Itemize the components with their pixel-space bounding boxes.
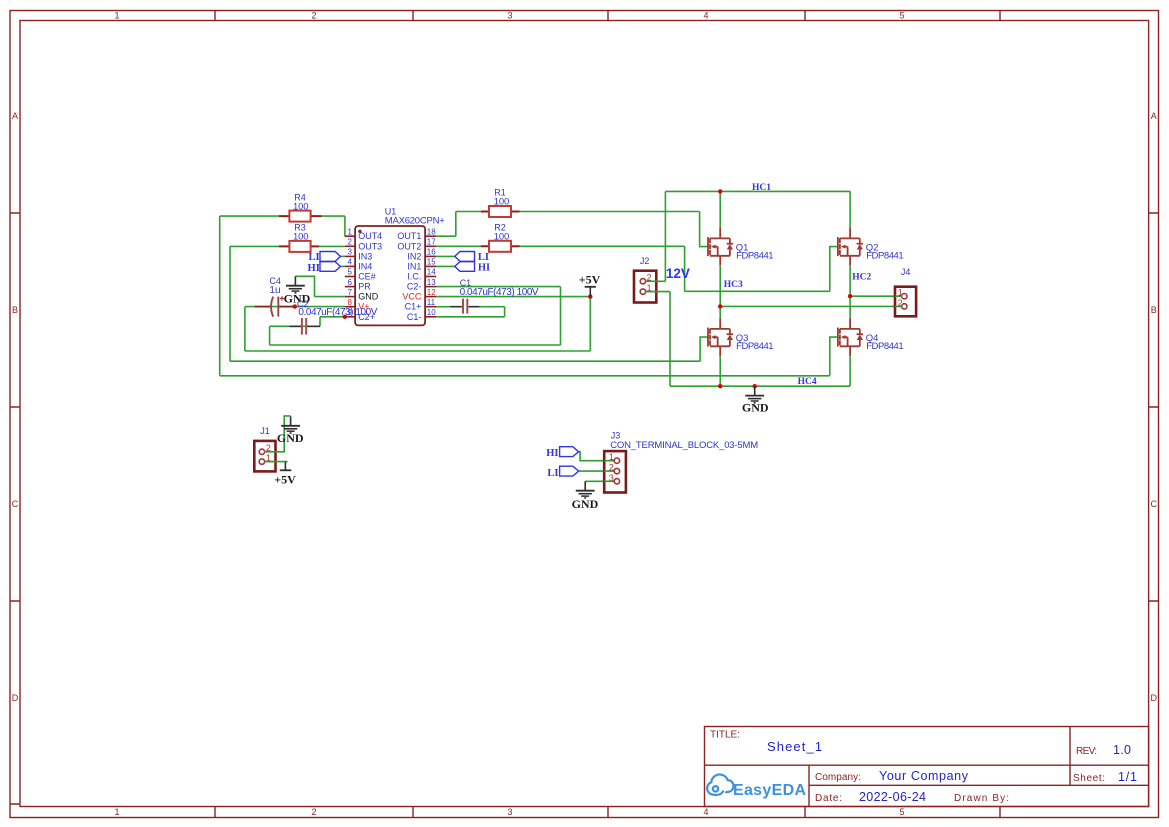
capacitor C2	[290, 318, 321, 335]
svg-text:C2-: C2-	[407, 282, 422, 292]
svg-text:3: 3	[507, 807, 512, 817]
wire R1 column rise	[455, 212, 457, 237]
wire C2 row	[270, 325, 320, 327]
wire R3 loop vertical	[229, 246, 231, 361]
wire J2 pin 1	[646, 291, 671, 293]
wire pin 17 to R2	[436, 245, 481, 247]
U1 right pin numbers 18-10	[427, 227, 436, 317]
wire to pin 7	[315, 296, 345, 298]
svg-text:1.0: 1.0	[1113, 743, 1131, 757]
frame column numbers top	[114, 11, 904, 21]
net port LI at J3 pin 2	[560, 466, 579, 476]
wire Q4 gate rise	[830, 337, 838, 376]
svg-text:GND: GND	[572, 497, 599, 511]
connector J3	[604, 451, 626, 492]
U1 right pin names	[397, 231, 422, 322]
junction pin 9 C2+	[343, 315, 347, 319]
connector J2	[634, 271, 656, 303]
svg-text:CON_TERMINAL_BLOCK_03-5MM: CON_TERMINAL_BLOCK_03-5MM	[610, 440, 758, 451]
wire J2 pin 2	[646, 280, 666, 282]
wire R4 left to loop	[220, 215, 279, 217]
svg-text:HC2: HC2	[852, 273, 871, 283]
svg-text:I.C.: I.C.	[407, 272, 421, 282]
svg-text:16: 16	[427, 248, 436, 257]
svg-text:A: A	[1151, 111, 1157, 121]
wire drop to pin 1	[344, 216, 346, 236]
transistor Q2	[838, 228, 863, 266]
wire J4 pin 1 run	[850, 295, 902, 297]
wire R4 loop bottom run to Q4 gate column	[220, 375, 830, 377]
capacitor C1	[450, 299, 480, 314]
svg-text:4: 4	[703, 11, 708, 21]
svg-text:CE#: CE#	[358, 272, 376, 282]
wire J3 HI flag to pin 1	[579, 452, 613, 461]
wire R1 right run	[520, 211, 700, 213]
net port LI at pin 16	[455, 252, 475, 262]
U1 left pin numbers 1-9	[348, 227, 353, 317]
frame column numbers bottom	[114, 807, 904, 817]
svg-text:OUT1: OUT1	[397, 231, 421, 241]
wire C4 row to pin 8	[245, 306, 345, 308]
svg-text:C1+: C1+	[405, 302, 422, 312]
title block lines	[705, 727, 1149, 807]
svg-text:FDP8441: FDP8441	[866, 251, 904, 262]
svg-text:2: 2	[311, 807, 316, 817]
wire Q2 source to Q4 drain HC2	[849, 266, 851, 318]
resistor R4	[279, 211, 322, 222]
wire 12V rail vertical	[664, 191, 666, 281]
wire +5V loop drop	[589, 297, 591, 351]
svg-text:J4: J4	[901, 267, 911, 277]
U1 left pin stubs	[345, 236, 355, 317]
svg-text:100: 100	[293, 232, 309, 243]
wire R2 lower run	[685, 290, 830, 292]
svg-text:J2: J2	[640, 256, 650, 266]
wire HI flag to pin 4	[340, 265, 344, 267]
svg-text:LI: LI	[478, 252, 489, 263]
svg-text:EasyEDA: EasyEDA	[733, 782, 806, 799]
wire R3 left to loop	[230, 245, 279, 247]
wire Q1 drain	[719, 191, 721, 227]
wire J3 pin 3 to GND	[585, 480, 612, 482]
wire C2- bottom run	[270, 344, 561, 346]
svg-text:LI: LI	[309, 252, 320, 263]
svg-text:5: 5	[899, 11, 904, 21]
svg-text:IN2: IN2	[407, 251, 421, 261]
power +5V symbol near VCC	[579, 273, 601, 297]
svg-text:C: C	[1151, 499, 1158, 509]
svg-text:Drawn By:: Drawn By:	[954, 793, 1009, 804]
wire R4 right to drop	[322, 215, 345, 217]
svg-text:PR: PR	[358, 282, 371, 292]
svg-text:10: 10	[427, 308, 436, 317]
svg-text:D: D	[1151, 693, 1158, 703]
svg-text:1: 1	[348, 227, 353, 236]
svg-text:17: 17	[427, 238, 436, 247]
svg-text:B: B	[1151, 305, 1157, 315]
wire Q2 gate rise	[830, 247, 838, 292]
wire overlays entering connector bodies	[264, 281, 902, 481]
svg-text:REV:: REV:	[1076, 746, 1097, 757]
wire GND symbol link	[295, 276, 314, 296]
wire Q1 source to Q3 drain HC3	[719, 266, 721, 318]
wire LI flag to pin 3	[340, 255, 344, 257]
svg-text:13: 13	[427, 278, 436, 287]
svg-text:IN4: IN4	[358, 261, 372, 271]
svg-text:C: C	[12, 499, 19, 509]
svg-text:Sheet:: Sheet:	[1073, 773, 1105, 784]
capacitor C4 polarized	[255, 296, 295, 316]
svg-text:HI: HI	[308, 263, 320, 274]
svg-text:IN1: IN1	[407, 261, 421, 271]
net port LI at pin 3	[320, 252, 340, 262]
junction HC2 J4 pin 1	[848, 294, 852, 298]
op-amp driver IC U1 MAX620CPN+ body	[355, 226, 425, 325]
svg-text:C1-: C1-	[407, 312, 422, 322]
wire R3 right to pin 2	[319, 245, 345, 247]
svg-text:0.047uF(473) 100V: 0.047uF(473) 100V	[298, 307, 377, 318]
svg-text:1: 1	[114, 807, 119, 817]
svg-text:OUT3: OUT3	[358, 241, 382, 251]
junction HC4 GND	[753, 384, 757, 388]
wire R2 right run	[520, 245, 685, 247]
svg-text:4: 4	[703, 807, 708, 817]
svg-text:1u: 1u	[269, 285, 280, 296]
wire pin 16 to LI flag	[436, 255, 455, 257]
wire to pin 9	[320, 316, 345, 318]
svg-text:TITLE:: TITLE:	[710, 730, 740, 741]
wire C2 left rise	[269, 326, 271, 345]
ground symbol at J1 pin 2	[281, 416, 300, 433]
svg-text:3: 3	[507, 11, 512, 21]
junction HC3 J4 pin 2	[718, 304, 722, 308]
wire HC4 ground rail	[670, 385, 850, 387]
EasyEDA logo cloud	[707, 774, 733, 794]
svg-text:OUT4: OUT4	[358, 231, 382, 241]
transistor Q3	[708, 318, 733, 356]
net port HI at J3 pin 1	[560, 447, 579, 457]
ground symbol on HC4 rail	[745, 386, 764, 403]
wire HC1 top rail	[665, 190, 850, 192]
svg-text:HC1: HC1	[752, 183, 771, 193]
svg-text:100: 100	[494, 232, 510, 243]
svg-text:VCC: VCC	[402, 292, 422, 302]
junction HC1 Q1 drain	[718, 189, 722, 193]
svg-text:FDP8441: FDP8441	[736, 251, 774, 262]
wire C1 drop	[504, 307, 506, 317]
svg-text:7: 7	[348, 288, 353, 297]
svg-text:HI: HI	[546, 448, 558, 459]
power +5V symbol at J1 pin 1	[274, 462, 296, 487]
svg-text:GND: GND	[277, 431, 304, 445]
ground symbol near C4	[286, 276, 305, 293]
svg-text:1: 1	[114, 11, 119, 21]
junction HC4 Q3 source	[718, 384, 722, 388]
svg-text:100: 100	[293, 201, 309, 212]
wire +5V loop rise to C4 row	[244, 307, 246, 351]
svg-text:12: 12	[427, 288, 436, 297]
svg-text:3: 3	[348, 248, 353, 257]
svg-text:HI: HI	[478, 263, 490, 274]
wire Q3 gate rise	[700, 337, 708, 361]
wire J3 LI flag to pin 2	[579, 470, 613, 472]
svg-text:MAX620CPN+: MAX620CPN+	[385, 216, 445, 227]
svg-text:8: 8	[348, 298, 353, 307]
svg-text:Company:: Company:	[815, 772, 861, 783]
svg-text:GND: GND	[284, 292, 311, 306]
svg-text:18: 18	[427, 227, 436, 236]
wire pin 13 C2- run	[436, 286, 560, 288]
svg-text:FDP8441: FDP8441	[736, 341, 774, 352]
svg-text:12V: 12V	[666, 266, 690, 281]
wire J1 pin 1 to +5V	[264, 461, 287, 463]
wire Q3 source	[719, 356, 721, 386]
svg-text:2: 2	[311, 11, 316, 21]
resistor R3	[279, 241, 319, 252]
svg-text:B: B	[12, 305, 18, 315]
svg-text:FDP8441: FDP8441	[866, 341, 904, 352]
wire pin 12 VCC to +5V	[436, 296, 590, 298]
svg-text:14: 14	[427, 268, 436, 277]
svg-text:HC4: HC4	[798, 377, 817, 387]
connector J4	[895, 287, 916, 317]
svg-text:2022-06-24: 2022-06-24	[859, 790, 926, 804]
svg-text:5: 5	[348, 268, 353, 277]
wire R1 left	[456, 211, 481, 213]
U1 right pin stubs	[425, 236, 436, 317]
wire pin 11 to C1	[436, 306, 450, 308]
wire C2- drop	[560, 287, 562, 345]
svg-text:A: A	[12, 111, 18, 121]
svg-text:11: 11	[427, 298, 436, 307]
net port HI at pin 15	[455, 262, 475, 272]
svg-text:+5V: +5V	[274, 472, 296, 486]
svg-text:+5V: +5V	[579, 273, 601, 287]
svg-text:6: 6	[348, 278, 353, 287]
svg-text:15: 15	[427, 258, 436, 267]
svg-text:Your Company: Your Company	[879, 769, 969, 783]
svg-text:J1: J1	[260, 426, 270, 436]
svg-text:100: 100	[494, 197, 510, 208]
U1 left pin names	[358, 231, 382, 322]
svg-text:1/1: 1/1	[1118, 770, 1137, 784]
wire C1 right	[480, 306, 505, 308]
wire +5V loop bottom run	[245, 350, 590, 352]
resistor R2	[481, 241, 520, 252]
wire R2 drop	[684, 246, 686, 291]
wire Q1 gate drop	[700, 212, 709, 247]
svg-text:GND: GND	[742, 400, 769, 414]
svg-text:D: D	[12, 693, 19, 703]
wire Q2 drain	[849, 191, 851, 227]
svg-text:HC3: HC3	[724, 280, 743, 290]
svg-text:4: 4	[348, 258, 353, 267]
wire J4 pin 2 run	[720, 305, 902, 307]
ground symbol at J3 pin 3	[576, 481, 595, 498]
svg-text:GND: GND	[358, 292, 379, 302]
wire Q4 source	[849, 356, 851, 386]
svg-text:0.047uF(473) 100V: 0.047uF(473) 100V	[460, 287, 539, 298]
junction C4 to V+	[293, 304, 297, 308]
svg-text:LI: LI	[547, 468, 558, 479]
wire R4 loop vertical	[219, 216, 221, 376]
wire pin 18 to R1 column	[436, 235, 456, 237]
junction +5V VCC	[588, 294, 592, 298]
wire J2 pin 1 drop to ground rail	[669, 292, 671, 387]
wire R3 loop bottom run to Q3 gate column	[230, 360, 700, 362]
frame row letters right	[1151, 111, 1158, 703]
wire J1 pin 2 to GND	[264, 416, 290, 452]
transistor Q1	[708, 228, 733, 266]
resistor R1	[481, 206, 520, 217]
wire pin 15 to HI flag	[436, 265, 455, 267]
svg-text:5: 5	[899, 807, 904, 817]
transistor Q4	[838, 318, 863, 356]
connector J1	[254, 441, 275, 472]
frame row letters left	[12, 111, 19, 703]
wire back to pin 10	[436, 316, 504, 318]
svg-text:IN3: IN3	[358, 251, 372, 261]
svg-text:2: 2	[348, 238, 353, 247]
svg-text:OUT2: OUT2	[397, 241, 421, 251]
svg-text:Date:: Date:	[815, 793, 842, 804]
wire C2 right rise to pin 9 row	[319, 317, 321, 327]
net port HI at pin 4	[320, 262, 340, 272]
